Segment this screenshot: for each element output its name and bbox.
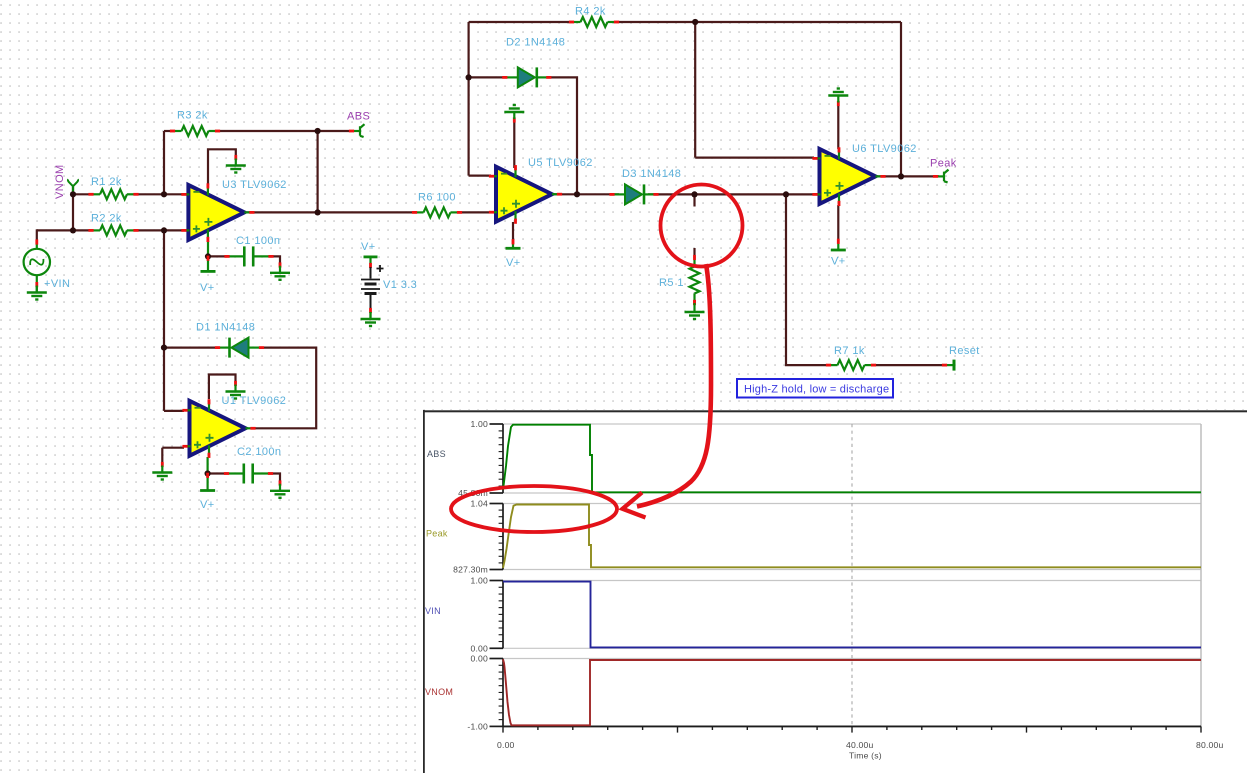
wire VIN to R2 row	[37, 229, 73, 242]
resistor R6	[412, 207, 462, 217]
wire C1 node to cap	[208, 255, 227, 257]
op-amp U6	[812, 147, 885, 206]
label U5	[528, 157, 593, 169]
svg-text:827.30m: 827.30m	[453, 565, 488, 575]
wire R5 stub lower	[693, 248, 695, 258]
svg-text:0.00: 0.00	[470, 654, 488, 664]
label VNOM	[54, 164, 66, 199]
curve label Peak	[426, 529, 448, 539]
plot axes	[490, 424, 1202, 726]
svg-text:V+: V+	[831, 256, 846, 268]
dashed cursor at 40u	[851, 424, 853, 726]
resistor R4	[569, 17, 619, 27]
label C2	[237, 446, 281, 458]
junction C1 node	[205, 253, 211, 259]
op-amp U5	[489, 165, 562, 224]
resistor R2	[88, 225, 138, 235]
svg-text:ABS: ABS	[347, 111, 370, 123]
terminal ABS	[349, 124, 365, 137]
power V+ below U5	[506, 239, 521, 248]
svg-text:D2 1N4148: D2 1N4148	[506, 37, 565, 49]
label V+ U1	[200, 499, 215, 511]
label R6	[418, 192, 456, 204]
trace VNOM	[503, 659, 1201, 725]
svg-text:1.00: 1.00	[470, 576, 488, 586]
capacitor C1	[224, 246, 273, 266]
label R2	[91, 213, 122, 225]
junction C2 node	[205, 470, 211, 476]
wire R3 row left	[164, 130, 173, 132]
svg-text:U6 TLV9062: U6 TLV9062	[852, 143, 917, 155]
wire R7 branch	[786, 194, 828, 365]
label U3	[222, 179, 287, 191]
power V+ below U1	[200, 473, 215, 491]
power V+ below U6	[831, 239, 846, 250]
svg-text:Reset: Reset	[949, 345, 980, 357]
x axis labels	[497, 740, 1224, 761]
wire R3 feedback vertical	[163, 131, 165, 194]
wire VNOM stem	[72, 187, 74, 230]
wire U5 top pin to flipped ground	[513, 121, 515, 169]
wire R7 to Reset terminal	[874, 364, 945, 366]
label R5	[659, 277, 684, 289]
wire R2 row left	[73, 229, 91, 231]
curve label ABS	[427, 449, 446, 459]
wire R4 row left	[469, 21, 572, 23]
trace Peak	[503, 505, 1201, 569]
wire U1 top pin to ground	[209, 375, 236, 400]
svg-text:VNOM: VNOM	[54, 164, 66, 199]
ground below VIN	[27, 286, 47, 300]
svg-text:D3 1N4148: D3 1N4148	[622, 168, 681, 180]
wire C2 right to ground	[271, 474, 281, 483]
curve label VNOM	[425, 687, 453, 697]
wire U1 bottom pin to C2 node	[207, 457, 209, 474]
label V1	[383, 279, 417, 291]
label R7	[834, 345, 865, 357]
wire R4 row right	[617, 21, 902, 23]
svg-text:+VIN: +VIN	[44, 278, 70, 290]
label V+ U3	[200, 282, 215, 294]
terminal Peak	[933, 170, 949, 183]
svg-text:-1.00: -1.00	[467, 721, 488, 731]
label V+ U5	[506, 257, 521, 269]
svg-text:V+: V+	[200, 282, 215, 294]
wire U6 output row	[878, 175, 940, 177]
wire ABS branch vertical	[317, 131, 319, 212]
trace ABS	[503, 425, 1201, 493]
label V+ U6	[831, 256, 846, 268]
flipped ground above U6	[828, 89, 848, 107]
diode D3 1N4148	[609, 184, 658, 204]
label D1	[196, 322, 255, 334]
y axis labels	[453, 419, 488, 731]
battery V1	[361, 257, 384, 318]
svg-text:D1 1N4148: D1 1N4148	[196, 322, 255, 334]
svg-text:U5 TLV9062: U5 TLV9062	[528, 157, 593, 169]
wire R3 row right	[218, 130, 318, 132]
capacitor C2	[224, 464, 273, 484]
diode D2 1N4148	[502, 67, 551, 87]
label R4	[575, 6, 606, 18]
x axis	[503, 726, 1201, 732]
label V+ V1	[361, 241, 376, 253]
svg-text:R7 1k: R7 1k	[834, 345, 865, 357]
wire to U6 inverting input	[695, 157, 814, 159]
svg-text:U1 TLV9062: U1 TLV9062	[222, 395, 287, 407]
svg-text:C2 100n: C2 100n	[237, 446, 281, 458]
wire to U5 inverting input	[469, 175, 491, 177]
annotation ellipse on plot	[451, 486, 617, 532]
annotation arrow curve	[623, 264, 712, 518]
svg-text:V+: V+	[506, 257, 521, 269]
terminal VNOM	[68, 179, 78, 194]
wire D3 to U6 non-inverting input	[648, 193, 814, 195]
wire R4 feedback left vertical	[468, 22, 470, 176]
svg-text:C1 100n: C1 100n	[236, 235, 280, 247]
wire U6 top pin to flipped ground	[837, 104, 839, 149]
trace VIN	[503, 582, 1201, 648]
wire D2 row right down to U5 output	[549, 77, 577, 194]
ground at U1 top pin	[226, 381, 246, 399]
wire U6 branch down to R4 wire	[694, 22, 696, 158]
label D2	[506, 37, 565, 49]
note High-Z hold	[737, 379, 893, 398]
op-amp U3	[181, 183, 254, 242]
wire R1 row right to U3 inverting input	[136, 193, 184, 195]
svg-text:Peak: Peak	[930, 158, 957, 170]
wire R1 row left	[73, 193, 91, 195]
ground right of C1	[270, 262, 290, 279]
svg-text:Peak: Peak	[426, 529, 448, 539]
wire D1 branch vertical	[163, 230, 165, 411]
wire U3 bottom pin to C1 node	[207, 241, 209, 256]
svg-text:0.00: 0.00	[497, 740, 515, 750]
label ABS	[347, 111, 370, 123]
wire to U1 inverting input	[164, 410, 184, 412]
resistor R1	[88, 189, 138, 199]
wire U5 bottom pin to V+	[512, 222, 514, 240]
wire D1 row right and U1 feedback loop	[252, 348, 316, 429]
diode D1 1N4148	[215, 338, 264, 358]
wire to ABS terminal	[318, 130, 349, 132]
svg-text:1.04: 1.04	[470, 499, 488, 509]
svg-text:R6 100: R6 100	[418, 192, 456, 204]
label U1	[222, 395, 287, 407]
wire U3 top pin to ground	[208, 149, 236, 185]
wire U3 output row	[247, 211, 415, 213]
ground right of C2	[270, 480, 290, 497]
svg-text:U3 TLV9062: U3 TLV9062	[222, 179, 287, 191]
resistor R3	[170, 126, 220, 136]
flipped ground above U5	[504, 105, 524, 123]
label C1	[236, 235, 280, 247]
wire R5 stub upper	[693, 194, 695, 206]
annotation circle on schematic	[661, 185, 743, 267]
wire D1 row left	[164, 347, 217, 349]
curve label VIN	[425, 606, 441, 616]
svg-text:80.00u: 80.00u	[1196, 740, 1224, 750]
power V+ below U3	[201, 256, 216, 272]
ground below R5	[685, 300, 705, 319]
label Reset	[949, 345, 980, 357]
label D3	[622, 168, 681, 180]
label Peak	[930, 158, 957, 170]
svg-text:ABS: ABS	[427, 449, 446, 459]
svg-text:Time (s): Time (s)	[849, 751, 882, 761]
wire C1 right to ground	[271, 256, 280, 264]
svg-text:0.00: 0.00	[470, 643, 488, 653]
ground at U3 top pin	[226, 155, 246, 173]
wire C2 node to cap	[208, 472, 227, 474]
svg-text:V1 3.3: V1 3.3	[383, 279, 417, 291]
wire R2 row right to U3 non-inverting input	[136, 229, 184, 231]
svg-text:40.00u: 40.00u	[846, 740, 874, 750]
svg-text:High-Z hold, low = discharge: High-Z hold, low = discharge	[744, 384, 889, 396]
terminal Reset	[942, 360, 954, 371]
wire R6 to U5 non-inverting input	[460, 211, 492, 213]
svg-text:R4 2k: R4 2k	[575, 6, 606, 18]
wire U1 non-inverting input	[162, 448, 184, 464]
label R3	[177, 110, 208, 122]
ground at U1 plus input	[152, 462, 172, 480]
svg-text:R1 2k: R1 2k	[91, 176, 122, 188]
svg-text:VNOM: VNOM	[425, 687, 453, 697]
svg-text:VIN: VIN	[425, 606, 441, 616]
resistor R7	[826, 360, 876, 370]
svg-text:1.00: 1.00	[470, 419, 488, 429]
wire U5 output row	[554, 193, 619, 195]
svg-text:R5 1: R5 1	[659, 277, 684, 289]
plot right boundary	[1200, 424, 1202, 726]
label R1	[91, 176, 122, 188]
svg-text:R3 2k: R3 2k	[177, 110, 208, 122]
op-amp U1	[182, 399, 255, 458]
ground below V1	[361, 312, 381, 326]
resistor R5	[690, 255, 700, 305]
svg-text:V+: V+	[361, 241, 376, 253]
wire R4 right vertical to U6 output	[900, 22, 902, 176]
label U6	[852, 143, 917, 155]
waveform window frame	[423, 410, 1247, 773]
svg-text:R2 2k: R2 2k	[91, 213, 122, 225]
wire D2 row left	[469, 76, 505, 78]
svg-text:V+: V+	[200, 499, 215, 511]
wire U6 bottom pin to V+	[837, 205, 839, 240]
label VIN	[44, 278, 70, 290]
source VIN	[24, 239, 50, 292]
